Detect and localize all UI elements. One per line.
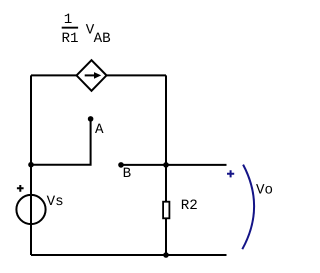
svg-text:B: B: [123, 166, 132, 182]
wire: right vertical rail: [165, 75, 167, 255]
junction dot at left rail / A stub: [28, 162, 34, 168]
wire: bottom horizontal: [31, 254, 227, 256]
svg-text:R2: R2: [181, 198, 198, 214]
plus sign of Vs: [17, 185, 24, 192]
voltage source Vs (circle): [16, 195, 45, 224]
junction dot right rail bottom: [163, 252, 169, 258]
output arc (blue): [242, 165, 254, 250]
wire: node A stub down and left to left rail: [31, 119, 91, 165]
svg-text:Vo: Vo: [256, 183, 273, 199]
node B dot: [118, 162, 124, 168]
svg-text:Vs: Vs: [47, 194, 64, 210]
arrow inside diamond: [85, 74, 96, 76]
junction dot right rail middle: [163, 162, 169, 168]
svg-text:AB: AB: [94, 31, 111, 47]
dependent current source U1 (diamond): [77, 60, 107, 91]
wire: left vertical rail: [30, 75, 32, 255]
resistor R2 (rectangle): [163, 202, 169, 219]
wire: top horizontal from left rail to right rail: [31, 74, 166, 76]
node A junction dot: [88, 116, 94, 122]
svg-text:A: A: [95, 122, 104, 138]
output plus sign (blue): [227, 170, 234, 177]
svg-text:1: 1: [64, 12, 73, 28]
svg-text:R1: R1: [62, 31, 79, 47]
wire: node B to right rail and output + terminal: [121, 164, 227, 166]
